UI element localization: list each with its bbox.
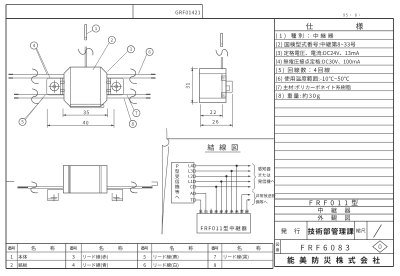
lower arrows brace: [252, 192, 256, 205]
parts row 8 blank: [214, 263, 216, 267]
side view wire break: [216, 49, 228, 56]
nameplate rounded rect: [70, 104, 104, 108]
front view right wire tip: [142, 186, 153, 188]
diagram title underline: [205, 151, 241, 153]
terminal 9 wire to contact arrow: [241, 195, 243, 214]
plan view body outline octagon: [64, 67, 107, 107]
left upper wire breaks: [32, 69, 39, 84]
sheet outer border left: [5, 5, 7, 269]
main frame top border: [6, 18, 394, 20]
dimension 22 extension lines: [200, 104, 202, 117]
title model FRF011: [310, 200, 358, 206]
main frame right border: [393, 19, 395, 267]
spec item 3: [276, 51, 359, 57]
right hole center cross: [111, 86, 122, 88]
left upper wire tips: [9, 73, 14, 75]
FRF011 relay box: [197, 214, 250, 234]
left lower wire breaks: [32, 89, 39, 104]
right flange plate: [107, 78, 124, 95]
torn edge left line: [161, 145, 163, 234]
dimension 40 text: [83, 121, 89, 125]
dimension 26 line: [201, 124, 233, 126]
company name NOHMI BOSAI: [287, 257, 380, 264]
side view bottom band line: [199, 97, 226, 99]
terminal 5 wire to L1 junction: [220, 182, 222, 214]
left flange edge lines: [59, 78, 61, 95]
main frame bottom border left part: [6, 268, 273, 270]
detector label line 1: [258, 167, 271, 171]
diagram area top border: [167, 138, 275, 140]
front view left foot cross: [51, 197, 58, 199]
front view edge lines: [67, 166, 69, 193]
scale slash: [374, 225, 382, 238]
dimension 31 extension lines: [191, 68, 198, 70]
spec item 2: [276, 42, 356, 48]
side view wire tip: [221, 43, 223, 45]
side view upper clip: [222, 76, 227, 80]
broadcast label line 1: [256, 194, 276, 198]
front view body rect: [63, 166, 107, 193]
top strip divider: [132, 5, 134, 19]
parts row 2 銘板: [10, 263, 12, 267]
front view right foot cross: [113, 197, 120, 199]
side view lower clip: [222, 93, 227, 97]
diagram title KESSENZU: [208, 144, 238, 151]
dimension 26 extension lines: [200, 118, 202, 128]
dimension 26 text: [212, 120, 218, 124]
parts table frame: [6, 243, 273, 245]
wire T to terminal 1: [195, 199, 200, 201]
balloon 1 top lead: [92, 25, 99, 32]
parts table header group 2: [70, 246, 77, 250]
title GAIKANZU outline drawing: [318, 215, 350, 221]
terminal 7 wire to L3 junction: [231, 171, 233, 214]
dimension 35 text: [83, 111, 88, 115]
side view body rect: [199, 69, 226, 103]
front view left wire break: [31, 182, 38, 193]
balloon 8 right lower leads: [129, 120, 136, 127]
right lower wire tips: [146, 93, 151, 95]
left lower wire tips: [14, 93, 19, 95]
terminal 3 wire stub: [210, 209, 212, 214]
balloon 4 left upper leads: [30, 42, 37, 49]
torn edge right line: [162, 146, 169, 234]
dimension 22 line: [201, 115, 223, 117]
relay terminal labels: [199, 210, 202, 213]
dimension 22 text: [210, 110, 216, 114]
right upper lead wires: [107, 73, 156, 75]
dimension 40 extension lines: [46, 109, 48, 128]
relay box label FRF011: [201, 226, 247, 231]
parts row 6 リード線(白): [144, 263, 146, 267]
drawing number label ZUBAN vertical: [276, 243, 280, 252]
front view right mounting foot: [107, 189, 123, 200]
front view left wire: [28, 186, 63, 188]
receiver terminal ticks: [193, 165, 195, 168]
front view right wire: [107, 186, 142, 188]
receiver terminal labels: [189, 164, 193, 167]
right upper wire breaks: [130, 69, 137, 84]
spec table header underline: [275, 30, 394, 32]
parts row 4 リード線(青): [72, 263, 74, 267]
torn edge hook: [162, 139, 169, 146]
fold mark near diagram: [152, 182, 158, 186]
plan view body edge lines: [69, 67, 71, 107]
right lower lead wires: [107, 93, 151, 95]
torn edge top spur: [166, 128, 168, 139]
detector label line 3: [258, 179, 275, 183]
terminal 6 wire to L2 junction: [225, 176, 227, 213]
top lead wire break: [78, 48, 93, 55]
spec item 5: [276, 67, 330, 73]
sheet top strip line: [6, 4, 202, 6]
right upper wire tips: [151, 73, 156, 75]
parts table header group 1: [8, 246, 15, 250]
dimension 31 text rotated: [186, 83, 190, 88]
issue row HAKKOU: [281, 228, 300, 234]
title CHUKEIKI: [318, 207, 350, 213]
document number GRF01421: [175, 11, 200, 15]
left flange tabs: [60, 81, 64, 83]
spec item 4: [276, 59, 360, 64]
left flange plate: [47, 78, 64, 95]
top lead wire tip: [85, 36, 87, 38]
right flange edge lines: [107, 78, 109, 95]
broadcast label line 2: [256, 200, 268, 204]
dimension 35 line: [63, 114, 108, 116]
detector label line 2: [259, 173, 271, 177]
wire L3 line: [195, 170, 248, 172]
balloon 7 right lower leads: [133, 110, 140, 117]
spec item 1: [276, 33, 333, 39]
left mounting hole: [50, 82, 59, 91]
dimension 35 extension lines: [62, 109, 64, 118]
wire L1 line: [195, 181, 248, 183]
top strip right edge: [201, 5, 203, 19]
parts row 3 リード線(赤): [72, 255, 74, 259]
left hole center cross: [49, 86, 60, 88]
date stamp text: [343, 14, 360, 17]
dimension 31 line: [191, 67, 193, 105]
dimension 40 line: [47, 124, 114, 126]
wire A to terminal 2: [195, 192, 206, 194]
spec item 8: [276, 93, 320, 99]
side view mounting tab: [226, 81, 232, 92]
balloon 6 right upper leads: [146, 48, 153, 55]
side view tab notch: [226, 86, 230, 90]
drawing number FRF6083: [301, 245, 349, 251]
left border centering tick: [6, 181, 14, 183]
side view top wire: [220, 57, 222, 69]
receiver terminal box: [171, 163, 194, 203]
spec item 7: [276, 85, 351, 90]
issue dept GIJUTSUBU KANRIKA: [308, 228, 354, 235]
balloon 3 nameplate side: [127, 46, 134, 53]
issue row dividers: [306, 221, 308, 240]
right lower wire breaks: [130, 89, 137, 104]
front view right wire break: [130, 182, 137, 193]
revision diamond mark: [373, 241, 388, 253]
right column left border: [274, 19, 276, 267]
balloon 2 body: [108, 36, 115, 43]
left lower lead wires: [14, 93, 64, 95]
parts row 1 本体: [11, 255, 13, 259]
terminal 4 wire to C junction: [215, 187, 217, 214]
title block bottom line: [275, 266, 394, 268]
front view left wire tip: [18, 186, 29, 188]
right mounting hole: [112, 82, 121, 91]
receiver label vertical text: [175, 164, 179, 198]
front view left mounting foot: [48, 189, 64, 200]
upper arrows brace: [252, 164, 256, 190]
parts table header group 3: [141, 246, 148, 250]
wire C line: [195, 186, 248, 188]
right flange tabs: [107, 81, 111, 83]
parts row 5 リード線(黄): [143, 255, 145, 259]
parts row 7 リード線(黒): [214, 255, 216, 259]
balloon 5 left lower leads: [19, 118, 26, 125]
title block top line: [275, 198, 394, 200]
spec item 6: [276, 76, 349, 82]
side view right face edge: [221, 74, 223, 98]
wire L4 line: [195, 165, 248, 167]
parts table header group 4: [211, 246, 218, 250]
scale label SHUKUSHAKU: [356, 228, 366, 232]
top lead wire: [84, 47, 86, 68]
left upper lead wires: [9, 73, 65, 75]
wire L2 line: [195, 175, 248, 177]
terminal 8 wire to L4 junction: [236, 166, 238, 214]
spec table header SHIYOU: [306, 23, 313, 30]
spec table row lines: [275, 38, 394, 40]
side view top band line: [199, 73, 226, 75]
terminal 10 wire to contact arrow: [246, 200, 248, 214]
